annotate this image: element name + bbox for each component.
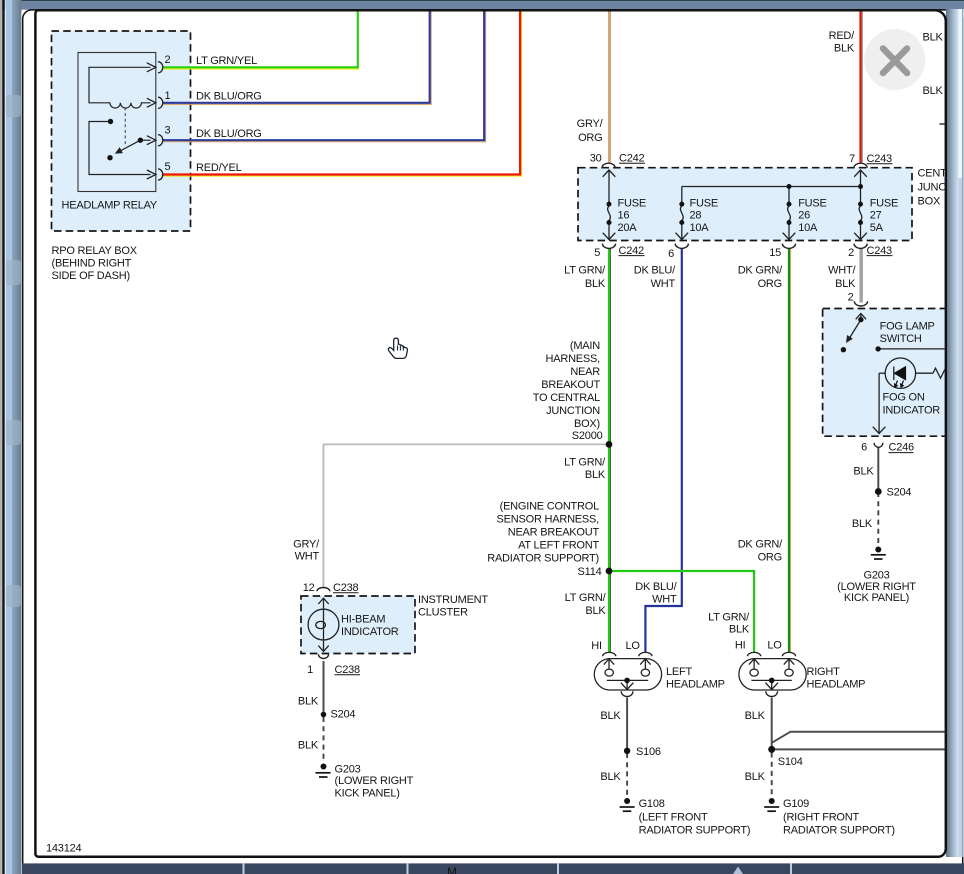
svg-text:INSTRUMENT: INSTRUMENT: [418, 594, 488, 606]
svg-text:RPO RELAY BOX: RPO RELAY BOX: [52, 245, 138, 257]
svg-text:BREAKOUT: BREAKOUT: [541, 379, 600, 391]
svg-text:RADIATOR SUPPORT): RADIATOR SUPPORT): [783, 825, 895, 837]
svg-text:5: 5: [165, 161, 171, 173]
svg-text:7: 7: [849, 153, 855, 165]
svg-text:(LOWER RIGHT: (LOWER RIGHT: [335, 775, 414, 787]
svg-text:JUNCTION: JUNCTION: [546, 405, 600, 417]
svg-text:C242: C242: [619, 245, 645, 257]
svg-text:(RIGHT FRONT: (RIGHT FRONT: [783, 812, 859, 824]
svg-text:HI-BEAM: HI-BEAM: [341, 614, 385, 626]
svg-text:BLK: BLK: [298, 740, 319, 752]
svg-text:2: 2: [848, 247, 854, 259]
svg-text:LEFT: LEFT: [666, 666, 693, 678]
svg-text:(LEFT FRONT: (LEFT FRONT: [639, 812, 708, 824]
svg-text:DK BLU/: DK BLU/: [635, 581, 677, 593]
svg-text:16: 16: [618, 210, 630, 222]
svg-text:FOG ON: FOG ON: [883, 392, 925, 404]
svg-text:KICK PANEL): KICK PANEL): [844, 592, 909, 604]
svg-text:SIDE OF DASH): SIDE OF DASH): [52, 270, 130, 282]
svg-text:(MAIN: (MAIN: [570, 340, 600, 352]
svg-text:C238: C238: [335, 664, 361, 676]
svg-text:(ENGINE CONTROL: (ENGINE CONTROL: [500, 501, 599, 513]
svg-text:6: 6: [861, 442, 867, 454]
svg-text:LT GRN/: LT GRN/: [708, 611, 750, 623]
svg-text:LO: LO: [767, 640, 782, 652]
svg-text:BOX: BOX: [918, 196, 941, 208]
svg-text:INDICATOR: INDICATOR: [341, 626, 399, 638]
svg-text:WHT: WHT: [651, 278, 676, 290]
svg-text:FUSE: FUSE: [690, 198, 718, 210]
svg-text:FUSE: FUSE: [618, 198, 646, 210]
svg-text:5: 5: [594, 247, 600, 259]
svg-text:BLK: BLK: [585, 278, 606, 290]
svg-text:HEADLAMP RELAY: HEADLAMP RELAY: [62, 200, 158, 212]
svg-text:M: M: [447, 865, 457, 874]
svg-text:RED/: RED/: [829, 30, 856, 42]
svg-text:6: 6: [668, 248, 674, 260]
svg-text:LO: LO: [625, 640, 640, 652]
svg-text:BLK: BLK: [729, 623, 750, 635]
svg-text:DK GRN/: DK GRN/: [738, 539, 783, 551]
svg-text:BOX): BOX): [574, 418, 600, 430]
svg-text:FUSE: FUSE: [798, 198, 826, 210]
svg-text:ORG: ORG: [578, 132, 602, 144]
svg-text:RIGHT: RIGHT: [807, 666, 841, 678]
svg-text:BLK: BLK: [745, 771, 766, 783]
svg-text:SENSOR HARNESS,: SENSOR HARNESS,: [497, 514, 600, 526]
svg-text:RADIATOR SUPPORT): RADIATOR SUPPORT): [639, 825, 751, 837]
svg-text:BLK: BLK: [585, 469, 606, 481]
svg-text:DK BLU/ORG: DK BLU/ORG: [196, 91, 262, 103]
svg-text:BLK: BLK: [600, 710, 621, 722]
svg-text:27: 27: [870, 210, 882, 222]
svg-text:143124: 143124: [46, 842, 81, 854]
svg-text:30: 30: [590, 153, 602, 165]
svg-text:HARNESS,: HARNESS,: [546, 353, 601, 365]
svg-text:KICK PANEL): KICK PANEL): [335, 788, 400, 800]
svg-text:HEADLAMP: HEADLAMP: [666, 678, 725, 690]
svg-text:WHT: WHT: [652, 593, 677, 605]
svg-text:2: 2: [848, 291, 854, 303]
svg-text:RED/YEL: RED/YEL: [196, 162, 242, 174]
svg-text:S114: S114: [578, 566, 602, 578]
svg-text:28: 28: [690, 210, 702, 222]
svg-text:FOG LAMP: FOG LAMP: [880, 321, 935, 333]
svg-text:5A: 5A: [870, 222, 884, 234]
svg-text:CLUSTER: CLUSTER: [418, 607, 468, 619]
svg-text:12: 12: [303, 582, 315, 594]
svg-text:BLK: BLK: [585, 605, 606, 617]
svg-text:BLK: BLK: [835, 278, 856, 290]
svg-text:C246: C246: [889, 442, 915, 454]
svg-text:INDICATOR: INDICATOR: [883, 405, 941, 417]
svg-text:HI: HI: [591, 640, 602, 652]
svg-text:FUSE: FUSE: [870, 198, 898, 210]
svg-text:G203: G203: [863, 569, 889, 581]
svg-text:WHT: WHT: [295, 550, 320, 562]
svg-text:TO CENTRAL: TO CENTRAL: [533, 392, 600, 404]
svg-text:DK GRN/: DK GRN/: [738, 265, 783, 277]
svg-text:BLK: BLK: [834, 42, 855, 54]
svg-text:G203: G203: [335, 764, 361, 776]
svg-text:LT GRN/: LT GRN/: [564, 265, 606, 277]
svg-text:NEAR BREAKOUT: NEAR BREAKOUT: [508, 527, 600, 539]
svg-text:S2000: S2000: [572, 430, 603, 442]
svg-text:20A: 20A: [618, 222, 638, 234]
svg-text:LT GRN/: LT GRN/: [564, 457, 606, 469]
svg-text:S204: S204: [887, 487, 912, 499]
svg-text:1: 1: [165, 90, 171, 102]
svg-text:AT LEFT FRONT: AT LEFT FRONT: [518, 540, 599, 552]
svg-text:BLK: BLK: [853, 466, 874, 478]
svg-text:HEADLAMP: HEADLAMP: [807, 678, 866, 690]
svg-text:DK BLU/: DK BLU/: [634, 265, 676, 277]
svg-text:NEAR: NEAR: [570, 366, 600, 378]
svg-text:SWITCH: SWITCH: [880, 333, 922, 345]
svg-text:HI: HI: [735, 640, 746, 652]
svg-text:BLK: BLK: [852, 518, 873, 530]
svg-text:2: 2: [165, 54, 171, 66]
svg-text:(BEHIND RIGHT: (BEHIND RIGHT: [52, 258, 132, 270]
svg-text:BLK: BLK: [923, 85, 944, 97]
svg-text:GRY/: GRY/: [577, 118, 604, 130]
svg-text:GRY/: GRY/: [293, 538, 320, 550]
svg-text:BLK: BLK: [600, 771, 621, 783]
svg-text:S204: S204: [331, 708, 356, 720]
svg-text:ORG: ORG: [758, 278, 782, 290]
svg-text:RADIATOR SUPPORT): RADIATOR SUPPORT): [487, 553, 599, 565]
svg-text:BLK: BLK: [923, 32, 944, 44]
svg-text:15: 15: [769, 247, 781, 259]
svg-text:10A: 10A: [798, 222, 818, 234]
svg-text:LT GRN/YEL: LT GRN/YEL: [196, 55, 257, 67]
svg-text:DK BLU/ORG: DK BLU/ORG: [196, 128, 262, 140]
svg-text:1: 1: [307, 664, 313, 676]
svg-text:BLK: BLK: [298, 696, 319, 708]
svg-text:S106: S106: [636, 746, 661, 758]
svg-text:G108: G108: [639, 798, 665, 810]
svg-text:WHT/: WHT/: [828, 265, 856, 277]
svg-text:3: 3: [165, 125, 171, 137]
svg-text:S104: S104: [778, 756, 803, 768]
svg-text:C243: C243: [867, 245, 893, 257]
svg-text:10A: 10A: [690, 222, 710, 234]
svg-text:BLK: BLK: [745, 710, 766, 722]
svg-text:G109: G109: [783, 798, 809, 810]
svg-text:C238: C238: [333, 582, 359, 594]
svg-text:LT GRN/: LT GRN/: [565, 592, 607, 604]
svg-text:26: 26: [798, 210, 810, 222]
svg-text:ORG: ORG: [758, 552, 782, 564]
